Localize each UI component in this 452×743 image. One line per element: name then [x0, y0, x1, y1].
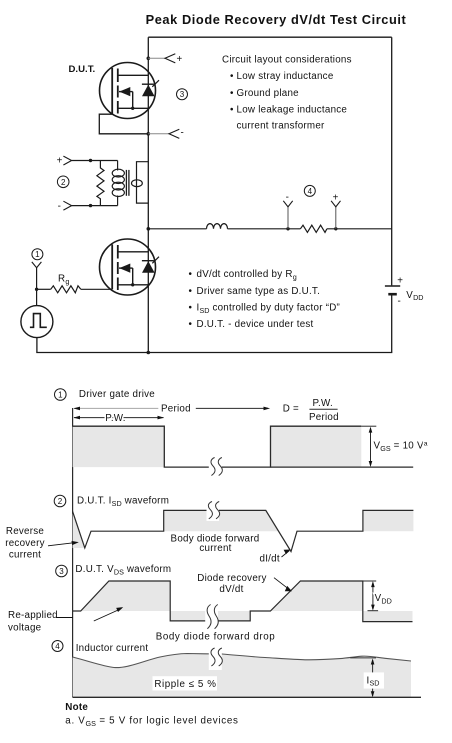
- svg-text:+: +: [177, 54, 183, 65]
- node: - probe of 4: [286, 227, 289, 230]
- node: + probe tap at DUT drain: [147, 57, 151, 61]
- svg-text:Driver same type as D.U.T.: Driver same type as D.U.T.: [197, 286, 321, 297]
- svg-text:current transformer: current transformer: [237, 120, 326, 131]
- inductor L1: [207, 224, 228, 229]
- svg-text:-: -: [181, 128, 185, 139]
- wire: bottom rail: [36, 352, 392, 354]
- wire: input to Rg node: [36, 268, 38, 290]
- waveform 4 baseline: [73, 696, 421, 698]
- tick: VDD zero: [368, 610, 379, 612]
- svg-text:current: current: [9, 550, 41, 561]
- waveform 1 trace: [73, 426, 362, 467]
- svg-text:•: •: [230, 104, 234, 115]
- svg-text:Reverse: Reverse: [6, 526, 45, 537]
- waveform 1 baseline: [271, 466, 414, 468]
- terminal: + probe arrow (4): [331, 201, 340, 207]
- svg-text:dV/dt: dV/dt: [219, 584, 243, 595]
- svg-text:dV/dt controlled by Rg: dV/dt controlled by Rg: [197, 269, 297, 281]
- wire: outer box right edge lower (from battery): [391, 295, 393, 353]
- transformer core: [125, 170, 127, 196]
- circled 1 waveform: [55, 389, 67, 401]
- svg-text:•: •: [189, 286, 193, 297]
- svg-text:Period: Period: [161, 403, 191, 414]
- wire: outer box right edge upper (to battery): [391, 37, 393, 285]
- svg-text:1: 1: [35, 250, 40, 259]
- break symbol wf2: [207, 500, 220, 522]
- waveform 3 trace: [73, 581, 413, 622]
- svg-text:•: •: [189, 302, 193, 313]
- resistor: CT burden resistor: [97, 161, 104, 206]
- svg-text:+: +: [57, 156, 63, 167]
- svg-text:4: 4: [55, 642, 60, 651]
- break symbol wf4: [209, 646, 223, 670]
- svg-text:Inductor current: Inductor current: [76, 643, 149, 654]
- svg-text:3: 3: [59, 567, 64, 576]
- svg-text:+: +: [397, 275, 403, 286]
- tick: VDD top: [363, 580, 376, 582]
- break symbol wf3: [205, 603, 218, 635]
- dimension: VGS amplitude: [370, 428, 372, 465]
- node: - probe tap at DUT source: [147, 132, 151, 136]
- svg-text:ISD controlled by duty factor: ISD controlled by duty factor “D”: [197, 302, 341, 314]
- inductor: CT primary single turn: [132, 162, 149, 203]
- resistor: current sense: [300, 225, 327, 232]
- svg-text:Circuit layout considerations: Circuit layout considerations: [222, 55, 352, 66]
- inductor: CT secondary winding: [112, 161, 124, 206]
- svg-text:Driver gate drive: Driver gate drive: [79, 389, 155, 400]
- svg-text:VDD: VDD: [406, 290, 423, 302]
- svg-text:Low leakage inductance: Low leakage inductance: [237, 104, 348, 115]
- svg-text:Note: Note: [65, 702, 88, 713]
- svg-text:D.U.T. ISD waveform: D.U.T. ISD waveform: [77, 496, 169, 508]
- label: ripple: [153, 676, 218, 690]
- wire: mid horizontal rail: [148, 228, 206, 230]
- svg-text:current: current: [199, 543, 231, 554]
- terminal: - probe arrow: [169, 129, 179, 138]
- svg-text:•: •: [230, 88, 234, 99]
- node: + probe of 4: [334, 227, 337, 230]
- svg-text:D.U.T. - device under test: D.U.T. - device under test: [197, 319, 314, 330]
- break symbol wf1: [209, 455, 223, 479]
- svg-text:2: 2: [61, 178, 66, 187]
- svg-text:D =: D =: [283, 404, 299, 415]
- svg-text:recovery: recovery: [5, 538, 45, 549]
- wire: lead to - probe: [148, 133, 169, 135]
- wire: CT top rail: [72, 160, 118, 162]
- svg-text:-: -: [58, 201, 62, 212]
- wire: gen bottom to rail: [36, 338, 38, 353]
- wire: probe lead: [335, 207, 337, 229]
- svg-text:3: 3: [180, 90, 185, 99]
- dimension: ISD: [372, 660, 374, 696]
- circled 3: [177, 89, 188, 100]
- wire: gen top: [36, 289, 38, 305]
- svg-text:VDD: VDD: [375, 593, 392, 605]
- svg-text:1: 1: [58, 391, 63, 400]
- svg-text:a. VGS = 5 V for logic level d: a. VGS = 5 V for logic level devices: [65, 715, 238, 727]
- tick: ISD top: [350, 657, 376, 659]
- waveform 2 trace: [73, 510, 414, 551]
- terminal: + probe arrow: [165, 54, 175, 63]
- circled 1: [32, 249, 43, 260]
- node: Rg junction: [35, 288, 38, 291]
- svg-text:D.U.T. VDS waveform: D.U.T. VDS waveform: [75, 564, 171, 576]
- transistor: driver MOSFET: [100, 239, 156, 295]
- wire: probe lead: [287, 207, 289, 229]
- svg-text:P.W.: P.W.: [313, 398, 333, 409]
- diode: DUT body diode: [142, 85, 155, 97]
- wire: outer box top edge: [148, 36, 391, 38]
- waveform 3 gray fills: [81, 581, 171, 611]
- wire: lead to + probe: [148, 57, 165, 59]
- resistor Rg: [37, 288, 51, 290]
- svg-text:•: •: [189, 319, 193, 330]
- svg-text:Diode recovery: Diode recovery: [197, 573, 266, 584]
- circled 2 waveform: [54, 495, 66, 507]
- svg-text:Ground plane: Ground plane: [237, 88, 300, 99]
- circled 2: [57, 176, 69, 188]
- svg-text:Rg: Rg: [58, 274, 69, 286]
- arrow to rising edge: [274, 578, 290, 591]
- wire: [228, 228, 301, 230]
- arrow to first spike: [48, 542, 78, 546]
- terminal: - probe arrow (4): [283, 201, 292, 207]
- dimension: Period: [74, 407, 158, 409]
- wire: [327, 228, 392, 230]
- generator: pulse source: [21, 306, 53, 338]
- svg-text:dI/dt: dI/dt: [260, 553, 280, 564]
- svg-text:•: •: [230, 71, 234, 82]
- waveform 1 gray fills: [73, 426, 165, 467]
- wire: DUT gate-to-source loop: [99, 114, 148, 134]
- svg-text:Low stray inductance: Low stray inductance: [237, 71, 334, 82]
- svg-text:Re-applied: Re-applied: [8, 610, 58, 621]
- battery VDD: [385, 285, 400, 287]
- waveform 4 trace: [73, 654, 411, 668]
- wire: main vertical bus: [147, 37, 149, 352]
- waveform 2 gray fills: [73, 512, 85, 549]
- axis: common left axis: [72, 408, 74, 697]
- tick: VGS top: [361, 425, 376, 427]
- svg-text:Ripple ≤ 5 %: Ripple ≤ 5 %: [154, 679, 216, 690]
- node: bottom rail junction: [147, 351, 151, 355]
- dimension: VDD: [372, 583, 374, 610]
- svg-text:P.W.: P.W.: [105, 413, 125, 424]
- svg-text:VGS = 10 Va: VGS = 10 Va: [374, 440, 428, 453]
- circled 4: [304, 185, 315, 196]
- dimension: P.W.: [74, 417, 164, 419]
- circled 4 waveform: [52, 641, 63, 652]
- svg-text:-: -: [398, 296, 402, 307]
- svg-text:-: -: [286, 192, 290, 203]
- circled 3 waveform: [56, 565, 68, 577]
- svg-text:Period: Period: [309, 412, 339, 423]
- svg-text:•: •: [189, 269, 193, 280]
- svg-text:Body diode forward drop: Body diode forward drop: [156, 631, 275, 642]
- svg-text:+: +: [333, 192, 339, 203]
- diode: driver body diode: [142, 261, 155, 273]
- transistor D.U.T. MOSFET: [100, 63, 156, 119]
- node: mid-rail junction: [147, 227, 151, 231]
- svg-text:Peak Diode Recovery dV/dt Test: Peak Diode Recovery dV/dt Test Circuit: [146, 12, 407, 27]
- svg-text:D.U.T.: D.U.T.: [69, 64, 96, 75]
- waveform 4 fill: [73, 654, 411, 698]
- svg-text:2: 2: [58, 497, 63, 506]
- terminal: gate drive input arrow: [32, 262, 42, 268]
- svg-text:4: 4: [308, 187, 313, 196]
- svg-text:voltage: voltage: [8, 622, 42, 633]
- wire: CT bottom rail: [72, 205, 118, 207]
